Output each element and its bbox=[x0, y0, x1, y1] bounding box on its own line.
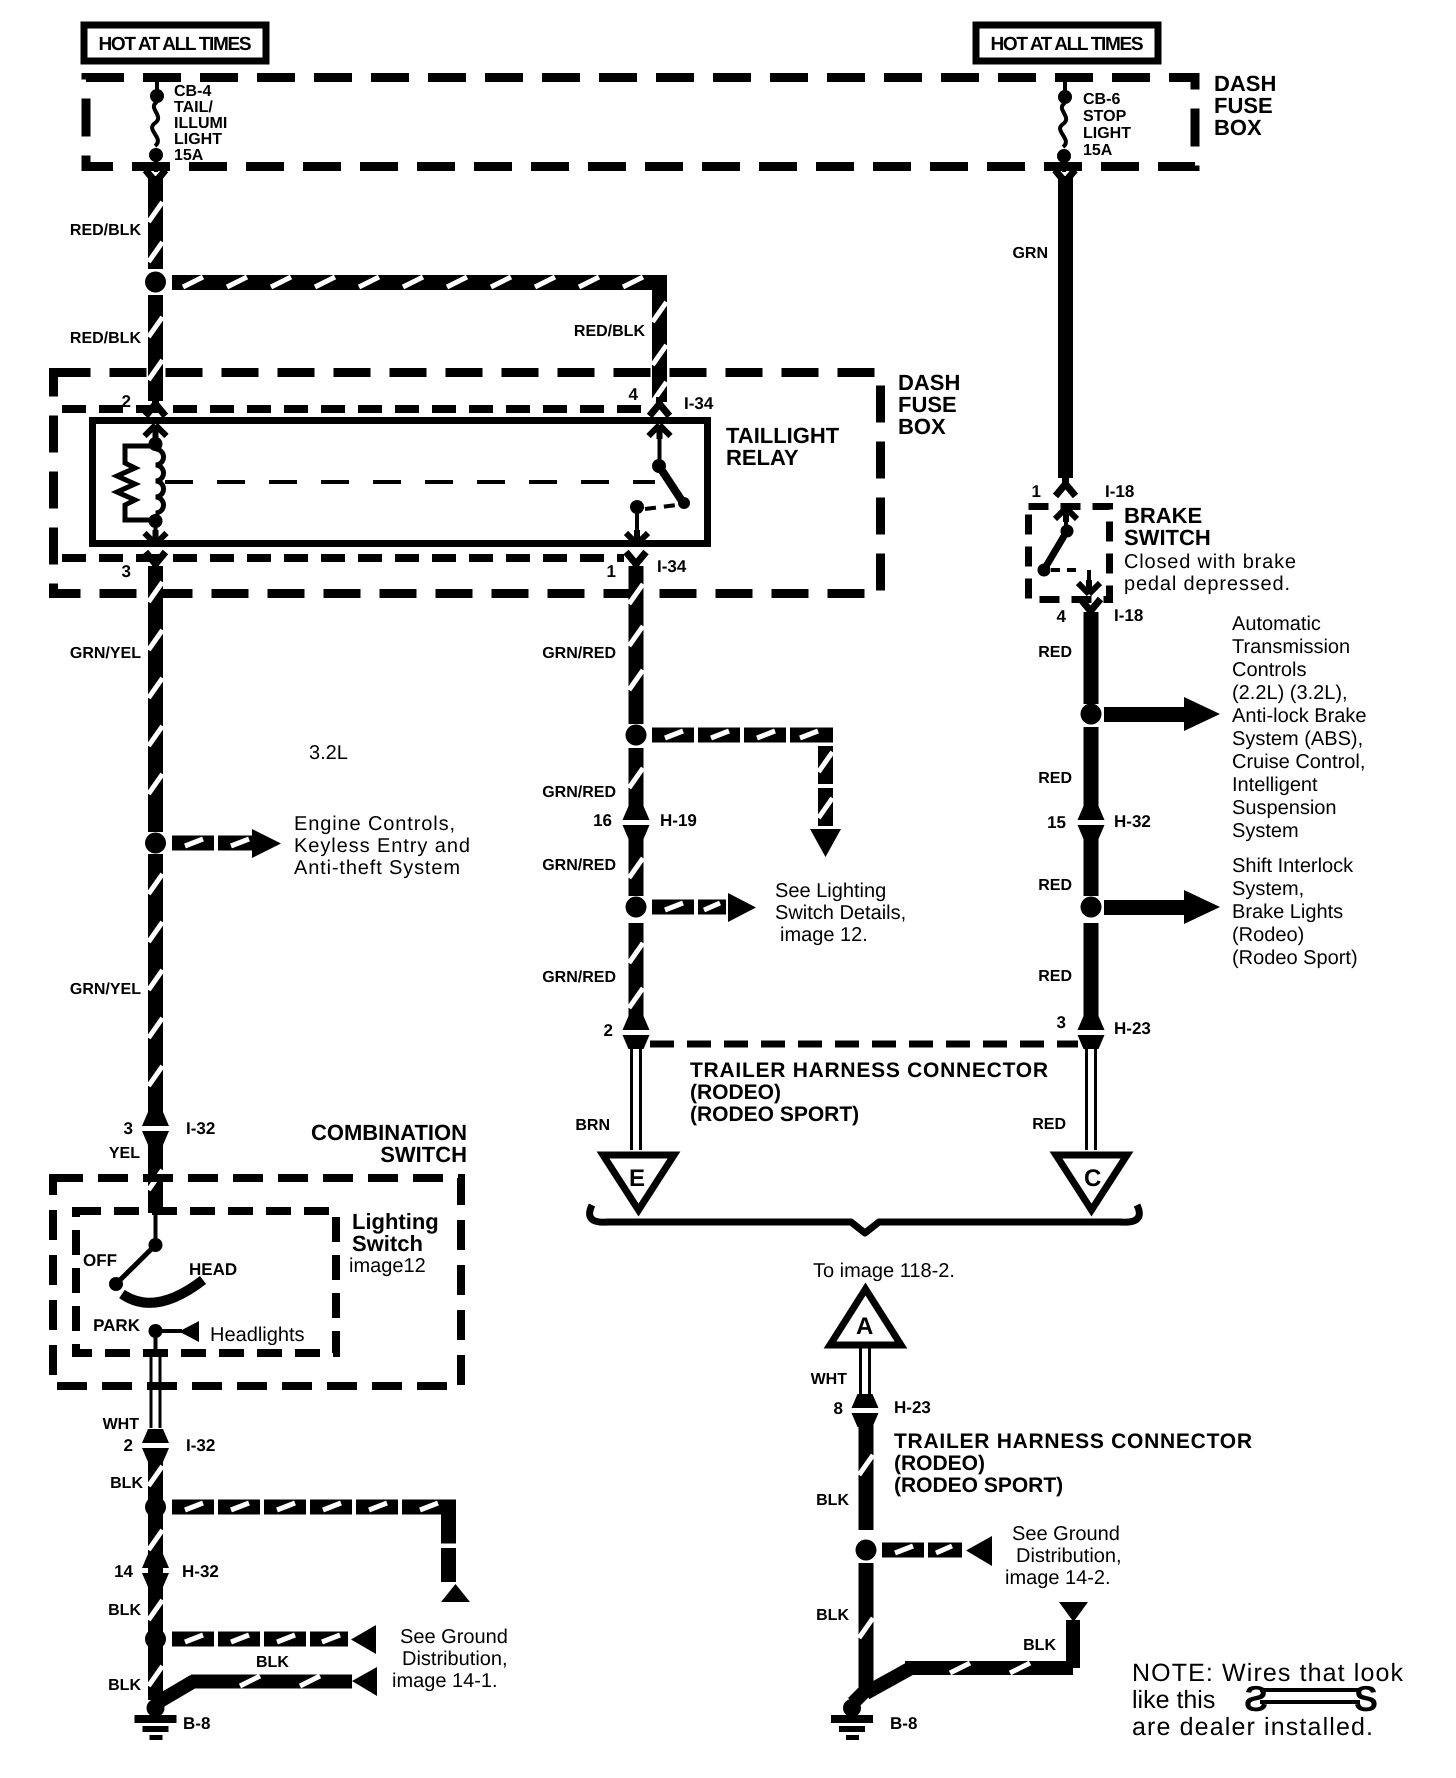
svg-text:2: 2 bbox=[124, 1436, 133, 1455]
svg-text:1: 1 bbox=[607, 562, 616, 581]
relay coil node (top) bbox=[149, 437, 163, 451]
svg-text:(Rodeo): (Rodeo) bbox=[1232, 924, 1304, 946]
svg-text:Distribution,: Distribution, bbox=[402, 1648, 508, 1670]
wire RED thin double (to C) bbox=[1087, 1048, 1096, 1150]
resistor (parallel with coil) bbox=[117, 446, 150, 520]
svg-text:image 12.: image 12. bbox=[780, 924, 868, 946]
svg-text:STOP: STOP bbox=[1083, 108, 1127, 125]
pin 3 connector fork bbox=[146, 552, 166, 571]
svg-text:I-32: I-32 bbox=[186, 1436, 215, 1455]
svg-text:(Rodeo Sport): (Rodeo Sport) bbox=[1232, 947, 1358, 969]
wire BLK left column bbox=[148, 1452, 163, 1700]
arrow to headlights bbox=[179, 1321, 199, 1342]
svg-text:LIGHT: LIGHT bbox=[174, 131, 222, 148]
svg-text:Engine Controls,: Engine Controls, bbox=[294, 813, 455, 835]
svg-text:(RODEO SPORT): (RODEO SPORT) bbox=[894, 1474, 1063, 1497]
svg-text:HOT AT ALL TIMES: HOT AT ALL TIMES bbox=[991, 34, 1144, 55]
arrow down to annotation bbox=[810, 829, 841, 857]
svg-text:WHT: WHT bbox=[811, 1371, 848, 1388]
node junction engine controls tap bbox=[145, 833, 166, 854]
annotation See Lighting Switch Details image 12 bbox=[775, 880, 906, 946]
svg-text:S: S bbox=[1354, 1678, 1378, 1719]
svg-text:BLK: BLK bbox=[256, 1654, 289, 1671]
svg-text:(RODEO): (RODEO) bbox=[894, 1452, 985, 1475]
wire end marker (triangle) bbox=[441, 1584, 470, 1602]
relay pin 4 internal arrow bbox=[649, 425, 671, 439]
annotation Shift Interlock System bbox=[1232, 855, 1358, 969]
connector H-23 pin 8 bbox=[852, 1394, 879, 1427]
svg-text:Switch: Switch bbox=[352, 1231, 423, 1256]
wire (dealer) to lighting switch details bbox=[652, 728, 833, 827]
arrow right to annotation bbox=[728, 893, 756, 922]
wire branch to shift interlock bbox=[1104, 900, 1184, 915]
arrow to ATC annotation bbox=[1184, 697, 1220, 731]
svg-text:I-34: I-34 bbox=[657, 557, 687, 576]
headlights tap line bbox=[160, 1329, 182, 1333]
value label CB-6 STOP LIGHT 15A bbox=[1083, 91, 1131, 159]
arrow marker (left-pointing, lower) bbox=[352, 1667, 377, 1696]
circuit breaker CB-4 bbox=[149, 80, 164, 172]
svg-text:BOX: BOX bbox=[1214, 115, 1262, 140]
connector trailer harness pin 2 bbox=[623, 1016, 650, 1049]
node junction lighting switch tap 1 bbox=[626, 725, 647, 746]
relay TAILLIGHT RELAY box bbox=[93, 421, 708, 544]
connector I-32 pin 3 bbox=[142, 1112, 169, 1145]
svg-text:RED: RED bbox=[1038, 770, 1072, 787]
svg-text:HEAD: HEAD bbox=[189, 1260, 237, 1279]
svg-text:4: 4 bbox=[629, 385, 639, 404]
brake switch box (dashed) bbox=[1029, 507, 1110, 600]
svg-text:RED/BLK: RED/BLK bbox=[70, 222, 142, 239]
svg-text:B-8: B-8 bbox=[890, 1714, 917, 1733]
svg-text:BRN: BRN bbox=[575, 1117, 610, 1134]
power label HOT AT ALL TIMES (left) bbox=[84, 25, 266, 61]
svg-text:GRN: GRN bbox=[1012, 245, 1048, 262]
label Lighting Switch image12 bbox=[352, 1209, 439, 1256]
svg-text:CB-4: CB-4 bbox=[174, 83, 211, 100]
label TRAILER HARNESS CONNECTOR (RODEO)(RODEO SPORT) lower bbox=[894, 1430, 1252, 1497]
svg-text:pedal depressed.: pedal depressed. bbox=[1124, 573, 1290, 595]
svg-text:B-8: B-8 bbox=[183, 1714, 210, 1733]
node junction left column bbox=[145, 272, 166, 293]
wire GRN/RED middle column bbox=[629, 566, 644, 724]
svg-text:image 14-2.: image 14-2. bbox=[1005, 1567, 1111, 1589]
svg-text:3: 3 bbox=[1057, 1013, 1066, 1032]
svg-text:15: 15 bbox=[1047, 813, 1066, 832]
wire RED 3 bbox=[1084, 838, 1099, 896]
wire branch to ATC bbox=[1104, 707, 1184, 722]
svg-text:RED: RED bbox=[1032, 1116, 1066, 1133]
dealer installed wire sample symbol bbox=[1244, 1678, 1378, 1719]
wire YEL bbox=[148, 1145, 163, 1213]
svg-text:H-32: H-32 bbox=[1114, 812, 1151, 831]
arrow to engine controls bbox=[252, 829, 281, 858]
relay pin 2 internal arrow bbox=[145, 425, 167, 439]
svg-text:GRN/RED: GRN/RED bbox=[542, 784, 616, 801]
svg-text:GRN/RED: GRN/RED bbox=[542, 857, 616, 874]
arrow marker (left-pointing) 14-2 bbox=[966, 1536, 992, 1566]
svg-text:BLK: BLK bbox=[1023, 1637, 1056, 1654]
svg-text:(RODEO): (RODEO) bbox=[690, 1081, 781, 1104]
relay pin 1 internal arrow bbox=[626, 530, 648, 544]
svg-text:GRN/YEL: GRN/YEL bbox=[70, 981, 141, 998]
svg-text:Controls: Controls bbox=[1232, 659, 1306, 681]
wire BRN thin double bbox=[632, 1048, 641, 1150]
svg-text:LIGHT: LIGHT bbox=[1083, 125, 1131, 142]
svg-text:I-34: I-34 bbox=[684, 394, 714, 413]
value label CB-4 TAIL/ILLUMI LIGHT 15A bbox=[174, 83, 227, 164]
pin 4 connector fork bbox=[650, 397, 670, 416]
svg-text:GRN/YEL: GRN/YEL bbox=[70, 645, 141, 662]
svg-text:See Ground: See Ground bbox=[400, 1626, 508, 1648]
svg-text:H-23: H-23 bbox=[894, 1398, 931, 1417]
relay switch lever bbox=[659, 466, 682, 501]
svg-text:H-32: H-32 bbox=[182, 1562, 219, 1581]
wire RED/BLK left column to pin 2 bbox=[148, 295, 163, 401]
svg-text:TRAILER HARNESS CONNECTOR: TRAILER HARNESS CONNECTOR bbox=[894, 1430, 1252, 1453]
svg-text:Intelligent: Intelligent bbox=[1232, 774, 1318, 796]
wire GRN/YEL left column bbox=[148, 566, 163, 832]
switch common node bbox=[149, 1238, 163, 1252]
power label HOT AT ALL TIMES (right) bbox=[976, 25, 1158, 61]
arrow to shift interlock annotation bbox=[1184, 890, 1220, 924]
relay switch contact node bbox=[630, 500, 644, 514]
svg-text:YEL: YEL bbox=[109, 1145, 140, 1162]
lighting switch inner box (dashed) bbox=[76, 1211, 336, 1353]
svg-text:4: 4 bbox=[1057, 607, 1067, 626]
svg-text:Switch Details,: Switch Details, bbox=[775, 902, 906, 924]
svg-text:C: C bbox=[1084, 1165, 1101, 1192]
svg-text:image 14-1.: image 14-1. bbox=[392, 1670, 498, 1692]
node junction ground branch 1 bbox=[145, 1497, 166, 1518]
wire WHT thin double (from A) bbox=[861, 1348, 870, 1395]
connector H-23 pin 3 bbox=[1078, 1016, 1105, 1049]
svg-text:14: 14 bbox=[114, 1562, 133, 1581]
relay internal linkage (dashed) bbox=[165, 480, 655, 484]
svg-text:H-19: H-19 bbox=[660, 811, 697, 830]
circuit breaker CB-6 bbox=[1057, 80, 1072, 172]
annotation See Ground Distribution image 14-2 bbox=[1005, 1523, 1122, 1589]
wire WHT thin double bbox=[154, 1337, 158, 1354]
relay coil node (bottom) bbox=[149, 514, 163, 528]
svg-text:I-32: I-32 bbox=[186, 1119, 215, 1138]
svg-text:Closed with brake: Closed with brake bbox=[1124, 551, 1296, 573]
note about dealer installed wires bbox=[1132, 1659, 1404, 1741]
node junction ATC tap bbox=[1081, 704, 1102, 725]
node junction shift interlock tap bbox=[1081, 897, 1102, 918]
brake switch lever bbox=[1045, 531, 1067, 568]
relay pin 3 internal arrow bbox=[145, 530, 167, 544]
svg-text:BLK: BLK bbox=[816, 1492, 849, 1509]
svg-text:Anti-theft System: Anti-theft System bbox=[294, 857, 460, 879]
wire (dealer) to lighting switch annotation bbox=[652, 900, 726, 915]
wire GRN/YEL lower bbox=[148, 854, 163, 1112]
wire (dealer) to ground distribution bbox=[172, 1632, 348, 1647]
node junction lighting switch tap 2 bbox=[626, 897, 647, 918]
svg-text:I-18: I-18 bbox=[1105, 482, 1134, 501]
svg-text:BLK: BLK bbox=[816, 1607, 849, 1624]
relay coil winding bbox=[156, 449, 164, 513]
svg-text:Automatic: Automatic bbox=[1232, 613, 1321, 635]
svg-text:Cruise Control,: Cruise Control, bbox=[1232, 751, 1365, 773]
label TRAILER HARNESS CONNECTOR (RODEO)(RODEO SPORT) bbox=[690, 1059, 1048, 1126]
annotation Automatic Transmission Controls bbox=[1232, 613, 1367, 842]
svg-text:BOX: BOX bbox=[898, 414, 946, 439]
svg-text:System,: System, bbox=[1232, 878, 1304, 900]
svg-text:System: System bbox=[1232, 820, 1299, 842]
svg-text:3: 3 bbox=[122, 562, 131, 581]
svg-text:2: 2 bbox=[122, 392, 131, 411]
svg-text:System (ABS),: System (ABS), bbox=[1232, 728, 1363, 750]
connector I-34 pin line (top) bbox=[62, 405, 650, 413]
wire GRN right column bbox=[1055, 170, 1075, 189]
wire GRN/RED 2 bbox=[629, 748, 644, 806]
svg-text:E: E bbox=[629, 1165, 645, 1192]
wire GRN/RED 4 bbox=[629, 923, 644, 1016]
svg-text:See Lighting: See Lighting bbox=[775, 880, 886, 902]
annotation Engine Controls bbox=[294, 813, 470, 879]
svg-text:PARK: PARK bbox=[93, 1316, 141, 1335]
relay switch pivot node bbox=[652, 459, 666, 473]
svg-text:SWITCH: SWITCH bbox=[1124, 525, 1211, 550]
svg-text:Shift Interlock: Shift Interlock bbox=[1232, 855, 1354, 877]
svg-text:like this: like this bbox=[1132, 1686, 1215, 1714]
annotation Closed with brake pedal depressed bbox=[1124, 551, 1296, 595]
svg-text:To image 118-2.: To image 118-2. bbox=[813, 1260, 955, 1282]
svg-text:See Ground: See Ground bbox=[1012, 1523, 1120, 1545]
combination switch outer box (dashed) bbox=[53, 1178, 461, 1386]
pin 1 connector fork bbox=[626, 552, 646, 571]
svg-text:(RODEO SPORT): (RODEO SPORT) bbox=[690, 1103, 859, 1126]
svg-text:3: 3 bbox=[124, 1119, 133, 1138]
svg-text:RELAY: RELAY bbox=[726, 445, 799, 470]
svg-text:A: A bbox=[856, 1313, 873, 1340]
switch lever to OFF bbox=[116, 1245, 156, 1284]
svg-text:3.2L: 3.2L bbox=[309, 742, 348, 764]
svg-text:I-18: I-18 bbox=[1114, 606, 1143, 625]
label DASH FUSE BOX (top right) bbox=[1214, 71, 1276, 140]
svg-text:RED: RED bbox=[1038, 968, 1072, 985]
svg-text:SWITCH: SWITCH bbox=[380, 1142, 467, 1167]
svg-text:TRAILER HARNESS CONNECTOR: TRAILER HARNESS CONNECTOR bbox=[690, 1059, 1048, 1082]
brake switch output arrow bbox=[1087, 570, 1091, 586]
annotation See Ground Distribution image 14-1 bbox=[392, 1626, 508, 1692]
connector H-32 pin 14 bbox=[142, 1554, 169, 1587]
wire (dealer) branch right and down bbox=[172, 1500, 456, 1583]
svg-text:15A: 15A bbox=[1083, 142, 1113, 159]
svg-text:RED/BLK: RED/BLK bbox=[574, 323, 646, 340]
svg-text:OFF: OFF bbox=[83, 1251, 117, 1270]
svg-text:Transmission: Transmission bbox=[1232, 636, 1350, 658]
svg-text:Suspension: Suspension bbox=[1232, 797, 1337, 819]
arrow marker (left-pointing) bbox=[351, 1625, 376, 1654]
brake switch pivot node bbox=[1061, 525, 1074, 538]
connector I-18 pin 4 fork bbox=[1081, 599, 1101, 618]
svg-text:RED: RED bbox=[1038, 877, 1072, 894]
svg-text:H-23: H-23 bbox=[1114, 1019, 1151, 1038]
wire BLK to arrow 14-1 bbox=[155, 1675, 352, 1705]
connector I-32 pin 2 bbox=[142, 1429, 169, 1462]
switch rotary arc bbox=[122, 1280, 203, 1303]
off-page connector E (triangle) bbox=[603, 1155, 674, 1210]
ground B-8 (right) bbox=[831, 1690, 873, 1740]
wire end marker (triangle, apex down) bbox=[1059, 1602, 1088, 1622]
pin 2 connector fork bbox=[146, 397, 166, 416]
svg-text:TAIL/: TAIL/ bbox=[174, 99, 213, 116]
off-page connector A (triangle) bbox=[830, 1289, 901, 1345]
svg-text:Keyless Entry and: Keyless Entry and bbox=[294, 835, 470, 857]
svg-text:RED: RED bbox=[1038, 644, 1072, 661]
svg-text:RED/BLK: RED/BLK bbox=[70, 330, 142, 347]
svg-text:GRN/RED: GRN/RED bbox=[542, 645, 616, 662]
label TAILLIGHT RELAY bbox=[726, 423, 840, 470]
wire (dealer) to engine controls bbox=[172, 836, 260, 851]
svg-text:Headlights: Headlights bbox=[210, 1324, 305, 1346]
wire RED right column bbox=[1084, 612, 1099, 704]
off-page connector C (triangle) bbox=[1056, 1155, 1127, 1210]
svg-text:GRN/RED: GRN/RED bbox=[542, 969, 616, 986]
svg-text:ILLUMI: ILLUMI bbox=[174, 115, 227, 132]
svg-text:(2.2L) (3.2L),: (2.2L) (3.2L), bbox=[1232, 682, 1348, 704]
trailer harness connector pin line (dashed) bbox=[650, 1041, 1078, 1048]
svg-text:2: 2 bbox=[604, 1021, 613, 1040]
wire RED/BLK horizontal run to pin 4 bbox=[172, 275, 667, 402]
dash fuse box (top, dashed enclosure) bbox=[86, 78, 1195, 167]
svg-text:15A: 15A bbox=[174, 147, 204, 164]
svg-text:BLK: BLK bbox=[110, 1475, 143, 1492]
node junction ground distribution tap bbox=[856, 1540, 877, 1561]
wire BLK branch to dangling end bbox=[866, 1620, 1080, 1693]
dash fuse box (second dashed enclosure around relay) bbox=[54, 373, 881, 594]
svg-text:HOT AT ALL TIMES: HOT AT ALL TIMES bbox=[99, 34, 252, 55]
connector I-34 pin line (bottom) bbox=[62, 554, 624, 562]
wire RED 4 bbox=[1084, 923, 1099, 1016]
wire BLK (right column) bbox=[859, 1425, 874, 1530]
connector H-32 pin 15 bbox=[1078, 806, 1105, 839]
label COMBINATION SWITCH bbox=[311, 1120, 467, 1167]
svg-text:S: S bbox=[1244, 1678, 1268, 1719]
label BRAKE SWITCH bbox=[1124, 503, 1211, 550]
svg-text:Distribution,: Distribution, bbox=[1016, 1545, 1122, 1567]
svg-text:16: 16 bbox=[593, 811, 612, 830]
lighting switch input stub bbox=[154, 1210, 158, 1242]
wire GRN/RED 3 bbox=[629, 838, 644, 896]
svg-text:CB-6: CB-6 bbox=[1083, 91, 1120, 108]
connector I-18 pin 1 fork bbox=[1056, 477, 1076, 496]
brake switch internal arrow bbox=[1055, 508, 1077, 522]
ground B-8 (left) bbox=[135, 1699, 177, 1740]
connector H-19 pin 16 bbox=[623, 806, 650, 839]
node junction ground branch 2 bbox=[145, 1629, 166, 1650]
svg-text:BLK: BLK bbox=[108, 1677, 141, 1694]
wire (dealer) to ground distribution 14-2 bbox=[882, 1543, 962, 1558]
wire BLK lower right bbox=[859, 1563, 874, 1693]
wire RED/BLK left column from fuse box bbox=[146, 170, 166, 189]
svg-text:Brake Lights: Brake Lights bbox=[1232, 901, 1343, 923]
svg-text:8: 8 bbox=[834, 1399, 843, 1418]
brace under E and C bbox=[590, 1205, 1140, 1233]
svg-text:image12: image12 bbox=[349, 1255, 426, 1277]
label DASH FUSE BOX (relay) bbox=[898, 370, 960, 439]
svg-text:1: 1 bbox=[1032, 482, 1041, 501]
svg-text:WHT: WHT bbox=[103, 1416, 140, 1433]
svg-text:Anti-lock Brake: Anti-lock Brake bbox=[1232, 705, 1367, 727]
switch PARK node bbox=[149, 1324, 163, 1338]
wire RED 2 bbox=[1084, 727, 1099, 806]
